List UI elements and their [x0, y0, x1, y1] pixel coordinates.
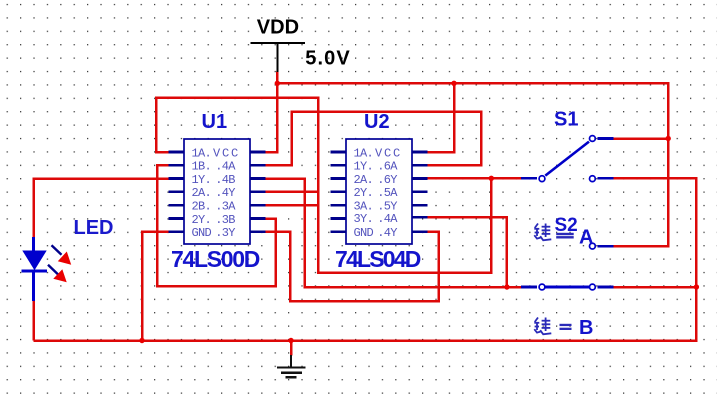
U2 pin 2Y stub: [331, 191, 347, 194]
U2 pin 2A stub: [331, 177, 347, 180]
svg-text:5.0V: 5.0V: [305, 48, 351, 70]
svg-text:2A.: 2A.: [192, 186, 212, 200]
U2 pin 6A stub: [412, 164, 428, 167]
wire U2 VCC riser from top rail: [428, 83, 455, 152]
svg-text:3B: 3B: [222, 213, 236, 227]
svg-text:1A.: 1A.: [192, 146, 212, 160]
LED emission arrow 1 shaft: [52, 245, 62, 255]
svg-text:74LS00D: 74LS00D: [171, 246, 260, 272]
wire U1.3A pin to riser: [266, 204, 319, 207]
svg-text:1A.: 1A.: [354, 146, 374, 160]
U2 pin VCC stub: [412, 151, 428, 154]
S1 common terminal circle: [539, 176, 545, 182]
svg-text:VCC: VCC: [375, 146, 402, 160]
junction VDD at top: [275, 81, 280, 86]
S1 switch blue lead throw2: [597, 177, 613, 180]
U2 pin 5A stub: [412, 191, 428, 194]
svg-text:1Y.: 1Y.: [354, 160, 374, 174]
VDD power symbol: [251, 43, 306, 72]
svg-text:VCC: VCC: [213, 146, 240, 160]
U1 pin 2Y stub: [169, 217, 185, 220]
svg-text:4A: 4A: [384, 212, 399, 226]
svg-text:VDD: VDD: [257, 17, 299, 39]
U2 pin 4A stub: [412, 216, 428, 219]
U2 pin 3A stub: [331, 204, 347, 207]
S1 lever arm: [545, 142, 589, 176]
svg-text:.: .: [377, 226, 384, 240]
U2 pin 6Y stub: [412, 177, 428, 180]
U1 pin 3Y stub: [250, 230, 266, 233]
U2 pin 1A stub: [331, 151, 347, 154]
U1 pin 2A stub: [169, 191, 185, 194]
LED body triangle: [22, 251, 46, 271]
svg-text:2Y.: 2Y.: [192, 213, 212, 227]
svg-text:5A: 5A: [384, 186, 399, 200]
junction S2 common node: [504, 284, 509, 289]
wire VDD stem to U1 VCC pin: [266, 72, 278, 153]
LED vertical lead upper blue: [32, 237, 35, 251]
svg-text:.: .: [215, 186, 222, 200]
U2 pin GND stub: [331, 230, 347, 233]
U1 pin 4A stub: [250, 164, 266, 167]
wire U1.GND down to ground rail: [142, 232, 169, 341]
svg-text:S2: S2: [555, 215, 578, 236]
svg-text:4Y: 4Y: [384, 226, 398, 240]
LED emission arrow 1 head: [58, 252, 71, 265]
svg-text:.: .: [215, 200, 222, 214]
svg-text:GND: GND: [354, 226, 374, 240]
svg-text:B: B: [579, 317, 593, 339]
S2 throw2 terminal circle: [590, 284, 596, 290]
svg-text:1B.: 1B.: [192, 160, 212, 174]
svg-text:2Y.: 2Y.: [354, 186, 374, 200]
svg-text:U2: U2: [364, 111, 390, 133]
svg-text:4Y: 4Y: [222, 186, 236, 200]
wire net U1.1B to U1.3B: [157, 165, 276, 286]
U2 pin 5Y stub: [412, 204, 428, 207]
S2 throw1 terminal circle top: [590, 243, 596, 249]
S1 switch blue lead throw1: [597, 137, 613, 140]
wire U2.6Y to S1 common: [428, 177, 522, 180]
S2 switch blue lead throw2: [597, 286, 613, 289]
U2 pin name labels: [354, 146, 403, 240]
S1 throw1 terminal circle: [590, 136, 596, 142]
junction U2 VCC on top rail: [451, 81, 456, 86]
svg-text:.: .: [215, 160, 222, 174]
U1 pin GND stub: [169, 230, 185, 233]
junction S1 throw1 on VDD riser: [666, 136, 671, 141]
wire net U1.3Y to U2.4Y under chips: [266, 232, 439, 302]
svg-text:.: .: [215, 226, 222, 240]
svg-text:2A.: 2A.: [354, 173, 374, 187]
U1 pin 1A stub: [169, 151, 185, 154]
svg-text:A: A: [579, 226, 593, 248]
U1 pin 4Y stub: [250, 191, 266, 194]
S2 switch blue lead common: [521, 286, 537, 289]
junction U1 GND on ground rail: [139, 338, 144, 343]
S2 common terminal circle: [539, 284, 545, 290]
LED cathode bar: [21, 269, 47, 272]
wire net U1.4B to S2 common: [266, 179, 522, 288]
U1 pin 1Y stub: [169, 177, 185, 180]
junction S2 throw2 right riser: [694, 284, 699, 289]
svg-text:3Y.: 3Y.: [354, 212, 374, 226]
LED emission arrow 2 shaft: [48, 265, 58, 275]
wire U1.4Y pin to riser: [266, 191, 319, 194]
wire net U1.1A to U1.4Y loop and down to S1 common / U2.6Y: [156, 98, 491, 273]
U2 pin 1Y stub: [331, 164, 347, 167]
svg-text:6A: 6A: [384, 160, 399, 174]
svg-text:1Y.: 1Y.: [192, 173, 212, 187]
U1 pin 1B stub: [169, 164, 185, 167]
wire bottom ground rail up right side to S1 throw2: [34, 178, 697, 340]
wire U2.4A drop to S2 common junction: [428, 217, 507, 287]
U2 pin 3Y stub: [331, 217, 347, 220]
U1 pin 4B stub: [250, 177, 266, 180]
svg-text:.: .: [215, 173, 222, 187]
LED vertical lead lower blue: [32, 271, 35, 301]
U1 pin 3A stub: [250, 204, 266, 207]
wire S1 throw1 to VDD riser: [614, 137, 669, 140]
S1 switch blue lead common: [521, 177, 537, 180]
U2 pin 4Y stub: [412, 230, 428, 233]
svg-text:.: .: [215, 213, 222, 227]
wire net U1.4A to U2.6A over the top: [266, 112, 482, 166]
wire LED cathode to ground rail: [32, 301, 35, 341]
S2 switch blue lead throw1 top: [597, 245, 613, 248]
wire S2 throw2 to right riser: [597, 286, 696, 289]
LED emission arrow 2 head: [53, 269, 66, 282]
junction S1 common / U2.6Y node: [489, 176, 494, 181]
ground symbol: [277, 355, 306, 377]
key A label: hanzi jian: [534, 224, 551, 241]
svg-text:LED: LED: [74, 217, 114, 239]
svg-text:4A: 4A: [222, 160, 237, 174]
key A equals sign: [556, 233, 574, 235]
wire U1.1Y to LED anode: [34, 179, 169, 238]
U2 chip body 74LS04D: [346, 139, 412, 244]
U1 pin name labels: [192, 146, 241, 240]
svg-text:.: .: [377, 173, 384, 187]
U1 pin 2B stub: [169, 204, 185, 207]
svg-text:GND: GND: [192, 226, 212, 240]
S1 throw2 terminal circle: [590, 176, 596, 182]
svg-text:74LS04D: 74LS04D: [335, 246, 421, 272]
svg-text:3Y: 3Y: [222, 226, 236, 240]
wire VDD top rail to S1 throw1 / S2 top terminal: [277, 83, 668, 246]
svg-text:U1: U1: [202, 111, 228, 133]
svg-text:S1: S1: [554, 109, 578, 131]
key B label: hanzi jian: [534, 318, 551, 335]
svg-text:3A: 3A: [222, 200, 237, 214]
U1 pin VCC stub: [250, 151, 266, 154]
U1 pin 3B stub: [250, 217, 266, 220]
svg-text:.: .: [377, 160, 384, 174]
key B equals sign: [560, 324, 572, 326]
junction ground symbol on rail: [288, 338, 293, 343]
svg-text:2B.: 2B.: [192, 200, 212, 214]
svg-text:.: .: [377, 186, 384, 200]
svg-text:6Y: 6Y: [384, 173, 398, 187]
wire ground symbol stem red part: [290, 341, 293, 356]
op U1 chip body 74LS00D: [184, 139, 250, 244]
svg-text:.: .: [377, 212, 384, 226]
S2 lever arm closed: [545, 286, 589, 289]
svg-text:4B: 4B: [222, 173, 236, 187]
